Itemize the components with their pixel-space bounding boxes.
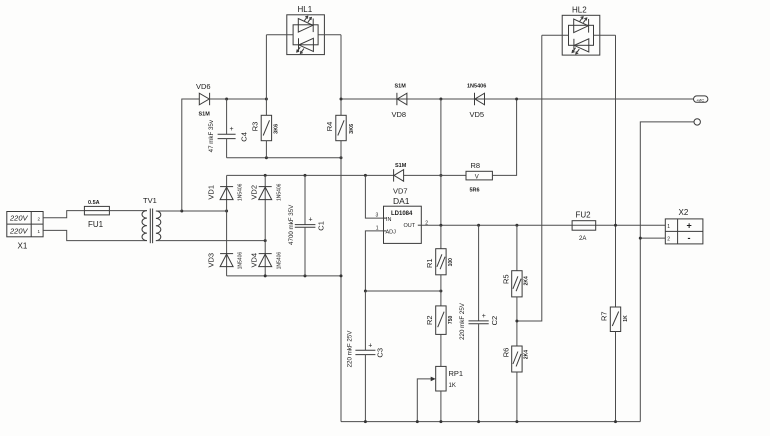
svg-text:220V: 220V (9, 214, 29, 223)
svg-text:220 mkF 25V: 220 mkF 25V (459, 302, 466, 340)
capacitor C4 (208, 99, 249, 158)
wire bridge top bus to IN corner (227, 174, 394, 176)
resistor R5 (501, 225, 529, 346)
svg-text:R1: R1 (425, 258, 434, 268)
svg-text:V: V (475, 175, 479, 181)
svg-text:VD1: VD1 (206, 185, 215, 200)
diode VD3 (206, 211, 243, 276)
svg-text:+: + (309, 217, 313, 224)
resistor R3 (250, 115, 279, 158)
svg-text:S1M: S1M (395, 84, 407, 90)
wire HL1 left lead down (265, 35, 267, 116)
wire HL2 left lead down to R5/R6 node (517, 35, 542, 321)
resistor R8 (466, 99, 517, 194)
svg-text:R8: R8 (471, 161, 481, 170)
svg-text:100: 100 (448, 258, 454, 267)
regulator DA1 (376, 196, 429, 243)
svg-text:R2: R2 (425, 315, 434, 325)
svg-text:S1M: S1M (395, 163, 407, 169)
wire ADJ to R1/R2 node (365, 231, 441, 291)
wire X1 pin2 to FU1 (43, 211, 84, 218)
svg-text:1: 1 (667, 224, 670, 230)
svg-text:1N5406: 1N5406 (238, 252, 244, 270)
wire FU1 to TV1 primary (109, 210, 146, 212)
svg-text:VD4: VD4 (249, 253, 258, 268)
svg-text:+: + (230, 126, 234, 133)
transformer TV1 (142, 196, 161, 243)
resistor R6 (501, 346, 529, 422)
svg-text:+ИС: +ИС (696, 97, 704, 102)
svg-text:-: - (688, 233, 691, 243)
svg-text:5R6: 5R6 (470, 188, 480, 194)
terminal block X1 (7, 212, 43, 251)
svg-text:VD6: VD6 (196, 82, 211, 91)
terminal circle (- output) (694, 119, 700, 125)
wire top rail (right section) (341, 98, 694, 100)
lamp HL1 (266, 5, 341, 55)
svg-text:220 mkF 25V: 220 mkF 25V (346, 330, 353, 368)
svg-text:FU2: FU2 (576, 211, 592, 220)
wire secondary top tap to bridge (156, 210, 227, 212)
capacitor C2 (459, 225, 499, 421)
diode VD8 (392, 84, 407, 120)
svg-text:VD5: VD5 (470, 110, 485, 119)
svg-text:1N5406: 1N5406 (277, 252, 283, 270)
wire X2 pin2 to minus column (640, 237, 665, 239)
diode VD7 (393, 163, 466, 196)
svg-text:VD3: VD3 (206, 253, 215, 268)
fuse FU1 (84, 200, 109, 229)
svg-text:R4: R4 (325, 122, 334, 132)
svg-text:2: 2 (667, 237, 670, 243)
svg-text:VD7: VD7 (393, 187, 408, 196)
svg-text:C3: C3 (375, 348, 384, 358)
terminal oval (+ output flag) (694, 96, 708, 102)
svg-text:2K4: 2K4 (524, 350, 530, 359)
svg-text:S1M: S1M (199, 112, 211, 118)
svg-text:VD8: VD8 (392, 110, 407, 119)
diode VD4 (249, 241, 282, 276)
node: secondary top junction (180, 210, 183, 213)
wire HL2 right lead down (615, 35, 617, 307)
svg-text:2K4: 2K4 (524, 276, 530, 285)
svg-text:0.5A: 0.5A (88, 200, 100, 206)
diode VD5 (467, 84, 486, 120)
wire VD8 node down to OUT row (440, 99, 442, 225)
wire R3/R4 bottoms (227, 157, 341, 159)
svg-text:2A: 2A (579, 236, 586, 242)
wire HL1 right lead / R4 column down to bottom rail (340, 35, 342, 116)
capacitor C1 (288, 175, 326, 276)
svg-text:+: + (368, 342, 372, 349)
svg-text:HL2: HL2 (572, 5, 587, 14)
capacitor C3 (346, 291, 384, 422)
svg-text:750: 750 (448, 316, 454, 325)
fuse FU2 (572, 211, 596, 243)
diode VD2 (249, 175, 282, 240)
svg-text:RP1: RP1 (449, 369, 464, 378)
svg-text:FU1: FU1 (88, 220, 104, 229)
svg-text:47 mkF 35v: 47 mkF 35v (208, 119, 215, 152)
svg-text:C4: C4 (240, 132, 249, 142)
svg-text:4700 mkF 35V: 4700 mkF 35V (288, 204, 295, 245)
wire minus terminal lead (640, 122, 694, 422)
svg-text:HL1: HL1 (298, 5, 313, 14)
svg-text:R7: R7 (599, 311, 608, 321)
wire IN riser to DA1 (365, 175, 383, 218)
svg-text:1N5406: 1N5406 (277, 183, 283, 201)
svg-text:1N5406: 1N5406 (467, 84, 486, 90)
terminal block X2 (665, 208, 703, 244)
lamp HL2 (542, 5, 616, 55)
svg-text:ADJ: ADJ (386, 229, 397, 235)
svg-text:220V: 220V (9, 226, 29, 235)
wire bridge bottom bus (227, 275, 341, 277)
svg-text:X2: X2 (679, 208, 689, 217)
svg-text:TV1: TV1 (143, 196, 157, 205)
svg-text:1K: 1K (449, 383, 456, 389)
svg-text:OUT: OUT (404, 223, 416, 229)
svg-text:3: 3 (376, 213, 379, 219)
svg-text:DA1: DA1 (393, 196, 410, 206)
svg-text:C2: C2 (490, 316, 499, 326)
svg-text:C1: C1 (317, 221, 326, 231)
svg-text:X1: X1 (18, 242, 28, 251)
svg-text:+: + (687, 221, 692, 231)
resistor R2 (425, 306, 454, 367)
svg-text:R3: R3 (250, 122, 259, 132)
wire OUT row (421, 224, 665, 226)
resistor R4 (325, 115, 355, 140)
wire VD6 to R3 node (210, 98, 267, 100)
resistor R7 (599, 307, 629, 422)
svg-text:R5: R5 (501, 274, 510, 284)
wire bottom rail (341, 421, 640, 423)
svg-text:1K: 1K (623, 315, 629, 322)
diode VD6 (196, 82, 211, 118)
diode VD1 (206, 175, 243, 211)
wire VD6 riser (182, 99, 200, 211)
resistor R1 (425, 225, 454, 306)
svg-text:VD2: VD2 (249, 185, 258, 200)
svg-text:LD1084: LD1084 (391, 211, 413, 217)
svg-text:3K6: 3K6 (349, 124, 355, 134)
svg-text:3K6: 3K6 (273, 124, 279, 134)
wire secondary bottom tap to bridge (156, 240, 265, 242)
svg-text:1N5406: 1N5406 (238, 183, 244, 201)
svg-text:R6: R6 (501, 348, 510, 358)
wire X1 pin1 to TV1 primary bottom (43, 230, 147, 240)
potentiometer RP1 (417, 366, 463, 421)
svg-text:+: + (482, 313, 486, 320)
